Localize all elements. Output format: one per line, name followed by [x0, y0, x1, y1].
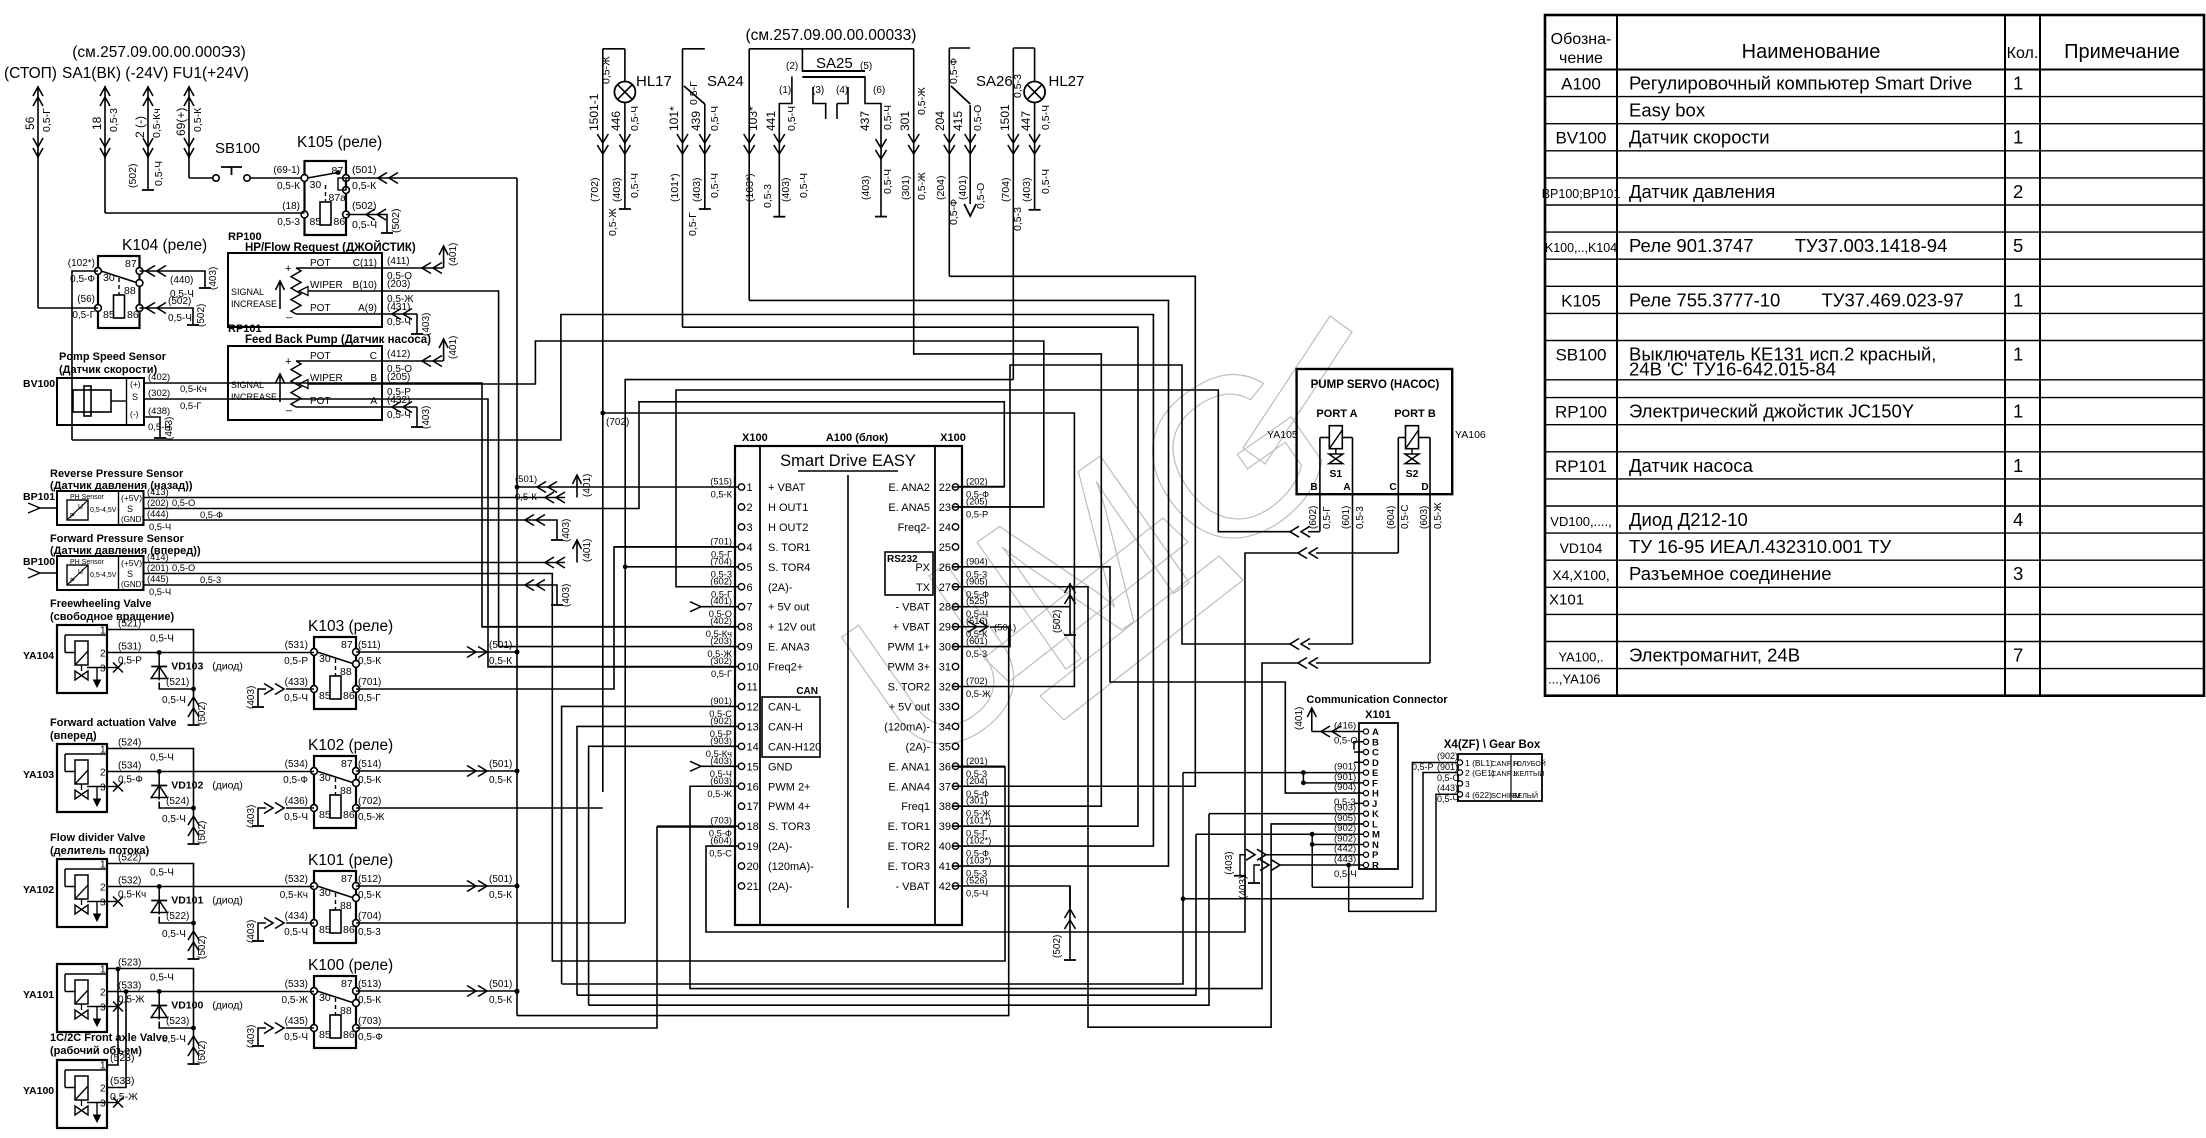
svg-text:(602): (602) [710, 576, 732, 586]
wire BP100 S net 201 around block to pin36 [144, 574, 1006, 962]
svg-text:0,5-Ч: 0,5-Ч [153, 161, 165, 186]
svg-text:Flow divider Valve: Flow divider Valve [50, 832, 145, 844]
svg-text:0,5-3: 0,5-3 [762, 184, 774, 208]
svg-text:C: C [1389, 482, 1396, 493]
svg-text:4: 4 [747, 542, 753, 554]
svg-text:0,5-О: 0,5-О [972, 105, 984, 131]
svg-text:(501): (501) [489, 979, 512, 990]
svg-text:Датчик скорости: Датчик скорости [1629, 127, 1770, 148]
svg-text:0,5-Ж: 0,5-Ж [118, 995, 145, 1006]
wire net 902 bottom run [577, 834, 1196, 995]
svg-text:(403): (403) [691, 177, 703, 202]
svg-text:VD101: VD101 [171, 895, 203, 907]
svg-text:(403): (403) [561, 584, 572, 607]
svg-text:18: 18 [747, 821, 759, 833]
svg-text:0,5-Г: 0,5-Г [180, 401, 202, 412]
svg-text:E. TOR3: E. TOR3 [888, 861, 930, 873]
svg-text:(диод): (диод) [212, 895, 243, 907]
solenoid S2 (YA106) [1406, 426, 1419, 449]
svg-text:(501): (501) [352, 164, 377, 176]
wire BP100 +5V net 414 to 401 arrow [144, 562, 566, 564]
svg-text:0,5-Р: 0,5-Р [966, 509, 988, 519]
wire A100 pin29 net 516 to 501 ref [952, 626, 988, 628]
wire 56 (СТОП) [37, 86, 39, 158]
svg-text:3: 3 [100, 898, 106, 909]
svg-text:85: 85 [319, 690, 331, 702]
node X101 pin A [1363, 729, 1368, 734]
svg-text:(604): (604) [1386, 506, 1397, 529]
svg-text:(603): (603) [710, 776, 732, 786]
svg-text:33: 33 [939, 701, 951, 713]
wire net 901 bottom run [562, 899, 1183, 984]
node K104 pin 87 [136, 268, 143, 275]
svg-text:(403): (403) [1238, 876, 1249, 899]
svg-text:BP100: BP100 [23, 556, 55, 568]
svg-text:PORT A: PORT A [1316, 408, 1357, 420]
svg-text:GND: GND [768, 761, 793, 773]
svg-text:0,5-Ч: 0,5-Ч [1437, 794, 1459, 804]
wire X101 K net 903 [1209, 813, 1363, 815]
wire X101 E net 901 [1183, 772, 1363, 774]
svg-text:CAN: CAN [796, 686, 818, 697]
svg-text:15: 15 [747, 761, 759, 773]
pump servo pin wires down [1319, 494, 1321, 532]
svg-text:0,5-Г: 0,5-Г [711, 669, 732, 679]
svg-text:S. TOR3: S. TOR3 [768, 821, 810, 833]
svg-text:A100: A100 [1561, 75, 1601, 94]
wire RP101 C to net 401 arrow [382, 360, 443, 362]
svg-text:(443): (443) [1437, 783, 1458, 793]
svg-text:(+5V): (+5V) [121, 558, 142, 568]
svg-text:0,5-К: 0,5-К [277, 181, 300, 192]
svg-text:(401): (401) [957, 175, 969, 200]
svg-text:0,5-К: 0,5-К [711, 490, 733, 500]
svg-text:85: 85 [319, 924, 331, 936]
svg-text:(Датчик скорости): (Датчик скорости) [59, 364, 157, 376]
svg-text:204: 204 [933, 111, 947, 131]
svg-text:A: A [370, 396, 377, 407]
svg-text:(403): (403) [1224, 851, 1235, 874]
svg-text:3: 3 [2013, 563, 2023, 584]
wire X101 D stub [1354, 761, 1363, 763]
svg-text:(6): (6) [873, 85, 885, 96]
svg-text:(901): (901) [710, 696, 732, 706]
svg-text:(904): (904) [1334, 782, 1356, 793]
svg-text:0,5-Ж: 0,5-Ж [916, 172, 928, 200]
svg-text:Обозна-: Обозна- [1551, 31, 1612, 48]
CAN box [762, 697, 820, 757]
svg-text:(502): (502) [197, 702, 208, 725]
svg-text:ЖЕЛТЫЙ: ЖЕЛТЫЙ [1513, 769, 1544, 778]
svg-text:K103 (реле): K103 (реле) [308, 618, 393, 635]
svg-text:(501): (501) [489, 759, 512, 770]
svg-text:(GND): (GND) [121, 580, 144, 589]
svg-text:0,5-Ж: 0,5-Ж [916, 87, 928, 115]
wire A100 pin36 net 201 stub [952, 765, 1005, 767]
svg-text:3: 3 [100, 1003, 106, 1014]
svg-text:0,5-Р: 0,5-Р [1412, 762, 1434, 772]
svg-text:5: 5 [2013, 235, 2023, 256]
svg-text:0,5-К: 0,5-К [358, 995, 381, 1006]
svg-text:чение: чение [1559, 50, 1603, 67]
svg-text:RP100: RP100 [1555, 403, 1607, 422]
svg-text:VD104: VD104 [1560, 540, 1603, 556]
svg-text:(433): (433) [285, 677, 308, 688]
svg-text:(703): (703) [710, 816, 732, 826]
svg-text:19: 19 [747, 841, 759, 853]
svg-text:(204): (204) [935, 175, 947, 200]
svg-text:0,5-Ч: 0,5-Ч [882, 105, 894, 130]
svg-text:0,5-С: 0,5-С [709, 849, 732, 859]
svg-text:(416): (416) [1334, 721, 1356, 732]
switch SA26 [949, 47, 970, 49]
svg-text:S. TOR1: S. TOR1 [768, 542, 810, 554]
svg-text:88: 88 [124, 285, 136, 297]
svg-text:3: 3 [100, 1099, 106, 1110]
svg-text:(531): (531) [285, 640, 308, 651]
wire 69(+) FU1 [188, 86, 190, 158]
bus 501 vertical [516, 178, 518, 1016]
svg-text:1: 1 [100, 860, 106, 871]
wire YA101 pin1 net 523 [107, 969, 194, 1029]
wire YA102 pin2 net 532 to K101 pin30 [107, 886, 314, 888]
svg-text:Датчик давления: Датчик давления [1629, 181, 1775, 202]
wire A100 pin14 net 903 [589, 746, 738, 1005]
svg-text:0,5-3: 0,5-3 [358, 927, 381, 938]
svg-text:(905): (905) [966, 576, 988, 586]
svg-text:Кол.: Кол. [2007, 45, 2039, 62]
svg-text:(120mA)-: (120mA)- [884, 721, 930, 733]
svg-text:0,5-Ф: 0,5-Ф [283, 775, 308, 786]
svg-text:(501): (501) [994, 623, 1016, 634]
svg-text:1: 1 [747, 482, 753, 494]
svg-text:(СТОП): (СТОП) [4, 65, 57, 82]
svg-text:16: 16 [747, 781, 759, 793]
svg-text:K101 (реле): K101 (реле) [308, 852, 393, 869]
svg-text:B: B [1310, 482, 1317, 493]
svg-text:PUMP SERVO (НАСОС): PUMP SERVO (НАСОС) [1311, 379, 1440, 391]
node K105 pin 86 [343, 211, 350, 218]
svg-text:32: 32 [939, 682, 951, 694]
svg-text:37: 37 [939, 781, 951, 793]
node X101 pin E [1363, 770, 1368, 775]
svg-text:Forward Pressure Sensor: Forward Pressure Sensor [50, 533, 185, 545]
svg-text:YA101: YA101 [23, 989, 54, 1001]
svg-text:0,5-Г: 0,5-Г [1322, 506, 1333, 529]
svg-text:(521): (521) [166, 677, 189, 688]
svg-text:87: 87 [341, 978, 353, 990]
svg-text:(202): (202) [966, 477, 988, 487]
svg-text:BP101: BP101 [23, 491, 55, 503]
svg-text:0,5-3: 0,5-3 [1355, 506, 1366, 529]
svg-text:K100,..,K104: K100,..,K104 [1545, 241, 1617, 255]
svg-text:0,5-Кч: 0,5-Кч [151, 108, 163, 138]
svg-text:PWM 2+: PWM 2+ [768, 781, 810, 793]
svg-text:Датчик насоса: Датчик насоса [1629, 455, 1754, 476]
svg-text:ГОЛУБОЙ: ГОЛУБОЙ [1513, 759, 1546, 768]
svg-text:(533): (533) [118, 981, 141, 992]
svg-text:P: P [70, 513, 75, 520]
wire K102 pin85 net 436 from ground 403 [286, 807, 314, 809]
svg-text:0,5-Ч: 0,5-Ч [352, 219, 377, 231]
svg-text:YA105: YA105 [1267, 429, 1298, 441]
svg-text:+: + [285, 356, 291, 368]
svg-text:1 (BL1): 1 (BL1) [1465, 758, 1493, 768]
diode VD102 [157, 769, 162, 774]
svg-text:0,5-Ж: 0,5-Ж [607, 208, 619, 236]
wire K100 pin87 net 513 to 501 bus [356, 990, 517, 992]
svg-text:(524): (524) [166, 796, 189, 807]
svg-text:0,5-Ч: 0,5-Ч [629, 173, 641, 198]
svg-text:7: 7 [2013, 645, 2023, 666]
svg-text:0,5-Р: 0,5-Р [284, 656, 308, 667]
svg-text:86: 86 [334, 216, 346, 228]
svg-text:(102*): (102*) [68, 258, 95, 269]
svg-text:C: C [370, 351, 377, 362]
svg-text:(444): (444) [147, 509, 169, 519]
svg-text:0,5-К: 0,5-К [358, 656, 381, 667]
svg-text:(532): (532) [118, 876, 141, 887]
svg-text:103*: 103* [746, 106, 760, 131]
svg-text:28: 28 [939, 602, 951, 614]
svg-text:(604): (604) [710, 836, 732, 846]
svg-text:(403): (403) [208, 267, 219, 290]
svg-text:22: 22 [939, 482, 951, 494]
svg-text:17: 17 [747, 801, 759, 813]
svg-text:(401): (401) [582, 539, 593, 562]
svg-text:E. ANA5: E. ANA5 [888, 502, 930, 514]
wire YA103 pin1 net 524 [107, 749, 194, 809]
svg-text:0,5-С: 0,5-С [1437, 773, 1460, 783]
svg-text:Разъемное соединение: Разъемное соединение [1629, 563, 1832, 584]
svg-text:YA100,.: YA100,. [1558, 650, 1603, 665]
wire K104 pin30 net 102* [72, 271, 98, 440]
svg-text:31: 31 [939, 662, 951, 674]
svg-text:0,5-Г: 0,5-Г [687, 212, 699, 236]
node K104 pin 30 [95, 268, 102, 275]
svg-text:SB100: SB100 [1555, 346, 1606, 365]
svg-text:(501): (501) [489, 874, 512, 885]
svg-text:3: 3 [1465, 779, 1470, 789]
node X101 pin C [1363, 749, 1368, 754]
wire RP101 A to ground 403 [382, 406, 417, 408]
wire YA100 pin1 net 523 up to YA101 pin1 [107, 969, 118, 1065]
svg-text:(523): (523) [166, 1016, 189, 1027]
svg-text:(401): (401) [582, 474, 593, 497]
svg-text:(103*): (103*) [966, 856, 991, 866]
wire A100 pin6 net 602 from pump servo B [676, 390, 1290, 587]
svg-text:0,5-О: 0,5-О [172, 563, 195, 573]
wire BP100 GND net 445 to ground 403 [144, 584, 546, 586]
svg-text:S2: S2 [1406, 468, 1419, 480]
svg-text:9: 9 [747, 642, 753, 654]
wire RP100 A to ground 403 [382, 313, 417, 315]
svg-text:0,5-Ж: 0,5-Ж [707, 789, 732, 799]
svg-text:(403): (403) [246, 920, 257, 943]
svg-text:0,5-Ч: 0,5-Ч [150, 973, 174, 984]
svg-text:86: 86 [127, 309, 139, 321]
svg-text:(203): (203) [710, 636, 732, 646]
svg-text:(523): (523) [118, 958, 141, 969]
svg-text:439: 439 [689, 111, 703, 131]
svg-text:(2A)-: (2A)- [906, 741, 931, 753]
svg-text:0,5-Ч: 0,5-Ч [150, 868, 174, 879]
svg-text:(532): (532) [285, 874, 308, 885]
svg-text:SIGNAL: SIGNAL [231, 287, 264, 297]
svg-text:H OUT1: H OUT1 [768, 502, 808, 514]
ground (502) of -24V wire [147, 152, 149, 190]
svg-text:0,5-4,5V: 0,5-4,5V [90, 572, 117, 579]
svg-text:(101*): (101*) [966, 816, 991, 826]
wire K102 pin86 net 702 to HL17 vertical [356, 807, 603, 809]
svg-text:0,5-Г: 0,5-Г [41, 108, 53, 132]
svg-text:0,5-Ж: 0,5-Ж [601, 56, 613, 84]
svg-text:0,5-3: 0,5-3 [1012, 207, 1024, 231]
svg-text:(4): (4) [836, 85, 848, 96]
svg-text:1: 1 [2013, 401, 2023, 422]
svg-text:K102 (реле): K102 (реле) [308, 737, 393, 754]
svg-text:K105 (реле): K105 (реле) [297, 134, 382, 151]
svg-text:441: 441 [764, 111, 778, 131]
svg-text:1501: 1501 [998, 104, 1012, 131]
svg-text:YA100: YA100 [23, 1085, 54, 1097]
svg-text:1: 1 [100, 745, 106, 756]
wire BV100 S net 302 [144, 399, 735, 667]
svg-text:HL17: HL17 [636, 73, 672, 90]
svg-text:(201): (201) [147, 563, 169, 573]
ECU block A100 [735, 446, 962, 925]
svg-text:S. TOR2: S. TOR2 [888, 682, 930, 694]
wire 2(-) -24V [147, 86, 149, 158]
svg-text:1: 1 [100, 965, 106, 976]
svg-text:(2A)-: (2A)- [768, 881, 793, 893]
wire BP101 S net 202 around block top to pin22 [144, 402, 1005, 509]
node K105 pin 87a [343, 187, 350, 194]
svg-text:35: 35 [939, 741, 951, 753]
svg-text:3: 3 [100, 783, 106, 794]
svg-text:(601): (601) [966, 636, 988, 646]
svg-text:POT: POT [310, 396, 331, 407]
svg-text:18: 18 [90, 116, 104, 130]
wire net 704 from HL27 to bus x625 [625, 380, 1013, 923]
svg-text:0,5-Ч: 0,5-Ч [150, 634, 174, 645]
svg-text:Реле 755.3777-10 ТУ37.4: Реле 755.3777-10 ТУ37.469.023-97 [1629, 289, 1964, 310]
svg-text:0,5-Ч: 0,5-Ч [284, 693, 308, 704]
svg-text:(402): (402) [148, 372, 170, 383]
svg-text:(523): (523) [110, 1052, 135, 1064]
RS232 box [885, 552, 933, 595]
svg-text:21: 21 [747, 881, 759, 893]
svg-text:0,5-К: 0,5-К [489, 775, 512, 786]
svg-text:11: 11 [747, 682, 758, 694]
svg-text:30: 30 [310, 179, 322, 191]
svg-text:- VBAT: - VBAT [895, 881, 930, 893]
svg-text:VD102: VD102 [171, 780, 203, 792]
svg-text:CAN-H: CAN-H [768, 721, 803, 733]
svg-text:301: 301 [898, 111, 912, 131]
svg-text:1: 1 [100, 626, 106, 637]
svg-text:0,5-К: 0,5-К [192, 107, 204, 132]
wire A100 pin8 net 402 stub [482, 626, 738, 628]
svg-text:(521): (521) [118, 619, 141, 630]
svg-text:Freq2-: Freq2- [898, 522, 931, 534]
pump servo channel frames [1319, 438, 1321, 495]
svg-text:(701): (701) [710, 536, 732, 546]
svg-text:1: 1 [2013, 344, 2023, 365]
node X4 pin 4 [1457, 792, 1462, 797]
svg-text:(502): (502) [196, 304, 207, 327]
wire K104 pin87 (440) to ground 403 [140, 271, 206, 288]
svg-text:S: S [132, 392, 138, 402]
svg-text:0,5-К: 0,5-К [489, 995, 512, 1006]
svg-text:(403): (403) [860, 175, 872, 200]
node X4 pin 1 [1457, 760, 1462, 765]
svg-text:(602): (602) [1308, 506, 1319, 529]
wire X101 P net 442 with ground 403 ref [1266, 854, 1363, 856]
svg-text:(403): (403) [561, 519, 572, 542]
svg-text:POT: POT [310, 351, 331, 362]
svg-text:0,5-3: 0,5-3 [1012, 74, 1024, 98]
svg-text:0,5-Ч: 0,5-Ч [284, 812, 308, 823]
svg-text:(502): (502) [127, 163, 139, 188]
svg-text:Feed Back Pump (Датчик насоса): Feed Back Pump (Датчик насоса) [245, 334, 431, 346]
svg-text:0,5-3: 0,5-3 [966, 649, 987, 659]
svg-text:(702): (702) [966, 676, 988, 686]
svg-text:(701): (701) [358, 677, 381, 688]
wire K104 pin85 from wire 56 [38, 307, 98, 309]
A100 left pins 1-21 [738, 484, 744, 490]
wire 415 to net 401 arrow [964, 204, 976, 216]
svg-text:(403): (403) [1021, 177, 1033, 202]
svg-text:BV100: BV100 [23, 378, 55, 390]
svg-text:(1): (1) [779, 85, 791, 96]
svg-text:1: 1 [2013, 73, 2023, 94]
wire X101 M net 902 [1196, 833, 1363, 835]
svg-text:PORT B: PORT B [1394, 408, 1436, 420]
svg-text:24В 'С' ТУ16-642.015-84: 24В 'С' ТУ16-642.015-84 [1629, 359, 1836, 380]
svg-text:(902): (902) [710, 716, 732, 726]
svg-text:1: 1 [2013, 455, 2023, 476]
svg-text:2: 2 [100, 988, 106, 999]
svg-text:Freq2+: Freq2+ [768, 662, 803, 674]
svg-text:86: 86 [343, 1029, 355, 1041]
svg-text:0,5-Ж: 0,5-Ж [966, 689, 991, 699]
svg-text:0,5-Ч: 0,5-Ч [966, 889, 988, 899]
switch SA25 [749, 48, 914, 50]
parts table frame [1545, 15, 2204, 696]
node X101 pin F [1363, 780, 1368, 785]
svg-text:1501-1: 1501-1 [587, 93, 601, 131]
svg-text:13: 13 [747, 721, 759, 733]
svg-text:H OUT2: H OUT2 [768, 522, 808, 534]
svg-text:0,5-К: 0,5-К [358, 775, 381, 786]
wire K100 pin85 net 435 from ground 403 [286, 1027, 314, 1029]
svg-text:(904): (904) [966, 556, 988, 566]
svg-text:VD100: VD100 [171, 1000, 203, 1012]
node X101 pin D [1363, 760, 1368, 765]
svg-text:SA24: SA24 [707, 73, 744, 90]
node K104 pin 88 [136, 280, 143, 287]
svg-text:0,5-Ч: 0,5-Ч [150, 753, 174, 764]
svg-text:Реле 901.3747 ТУ37.003.: Реле 901.3747 ТУ37.003.1418-94 [1629, 235, 1947, 256]
svg-text:(435): (435) [285, 1016, 308, 1027]
svg-text:(301): (301) [900, 175, 912, 200]
wire X4 pin2 net 901 [1183, 773, 1458, 899]
svg-text:(2A)-: (2A)- [768, 582, 793, 594]
svg-text:(512): (512) [358, 874, 381, 885]
svg-text:ТУ 16-95 ИЕАЛ.432310.001 ТУ: ТУ 16-95 ИЕАЛ.432310.001 ТУ [1629, 536, 1891, 557]
svg-text:(103*): (103*) [744, 173, 756, 202]
